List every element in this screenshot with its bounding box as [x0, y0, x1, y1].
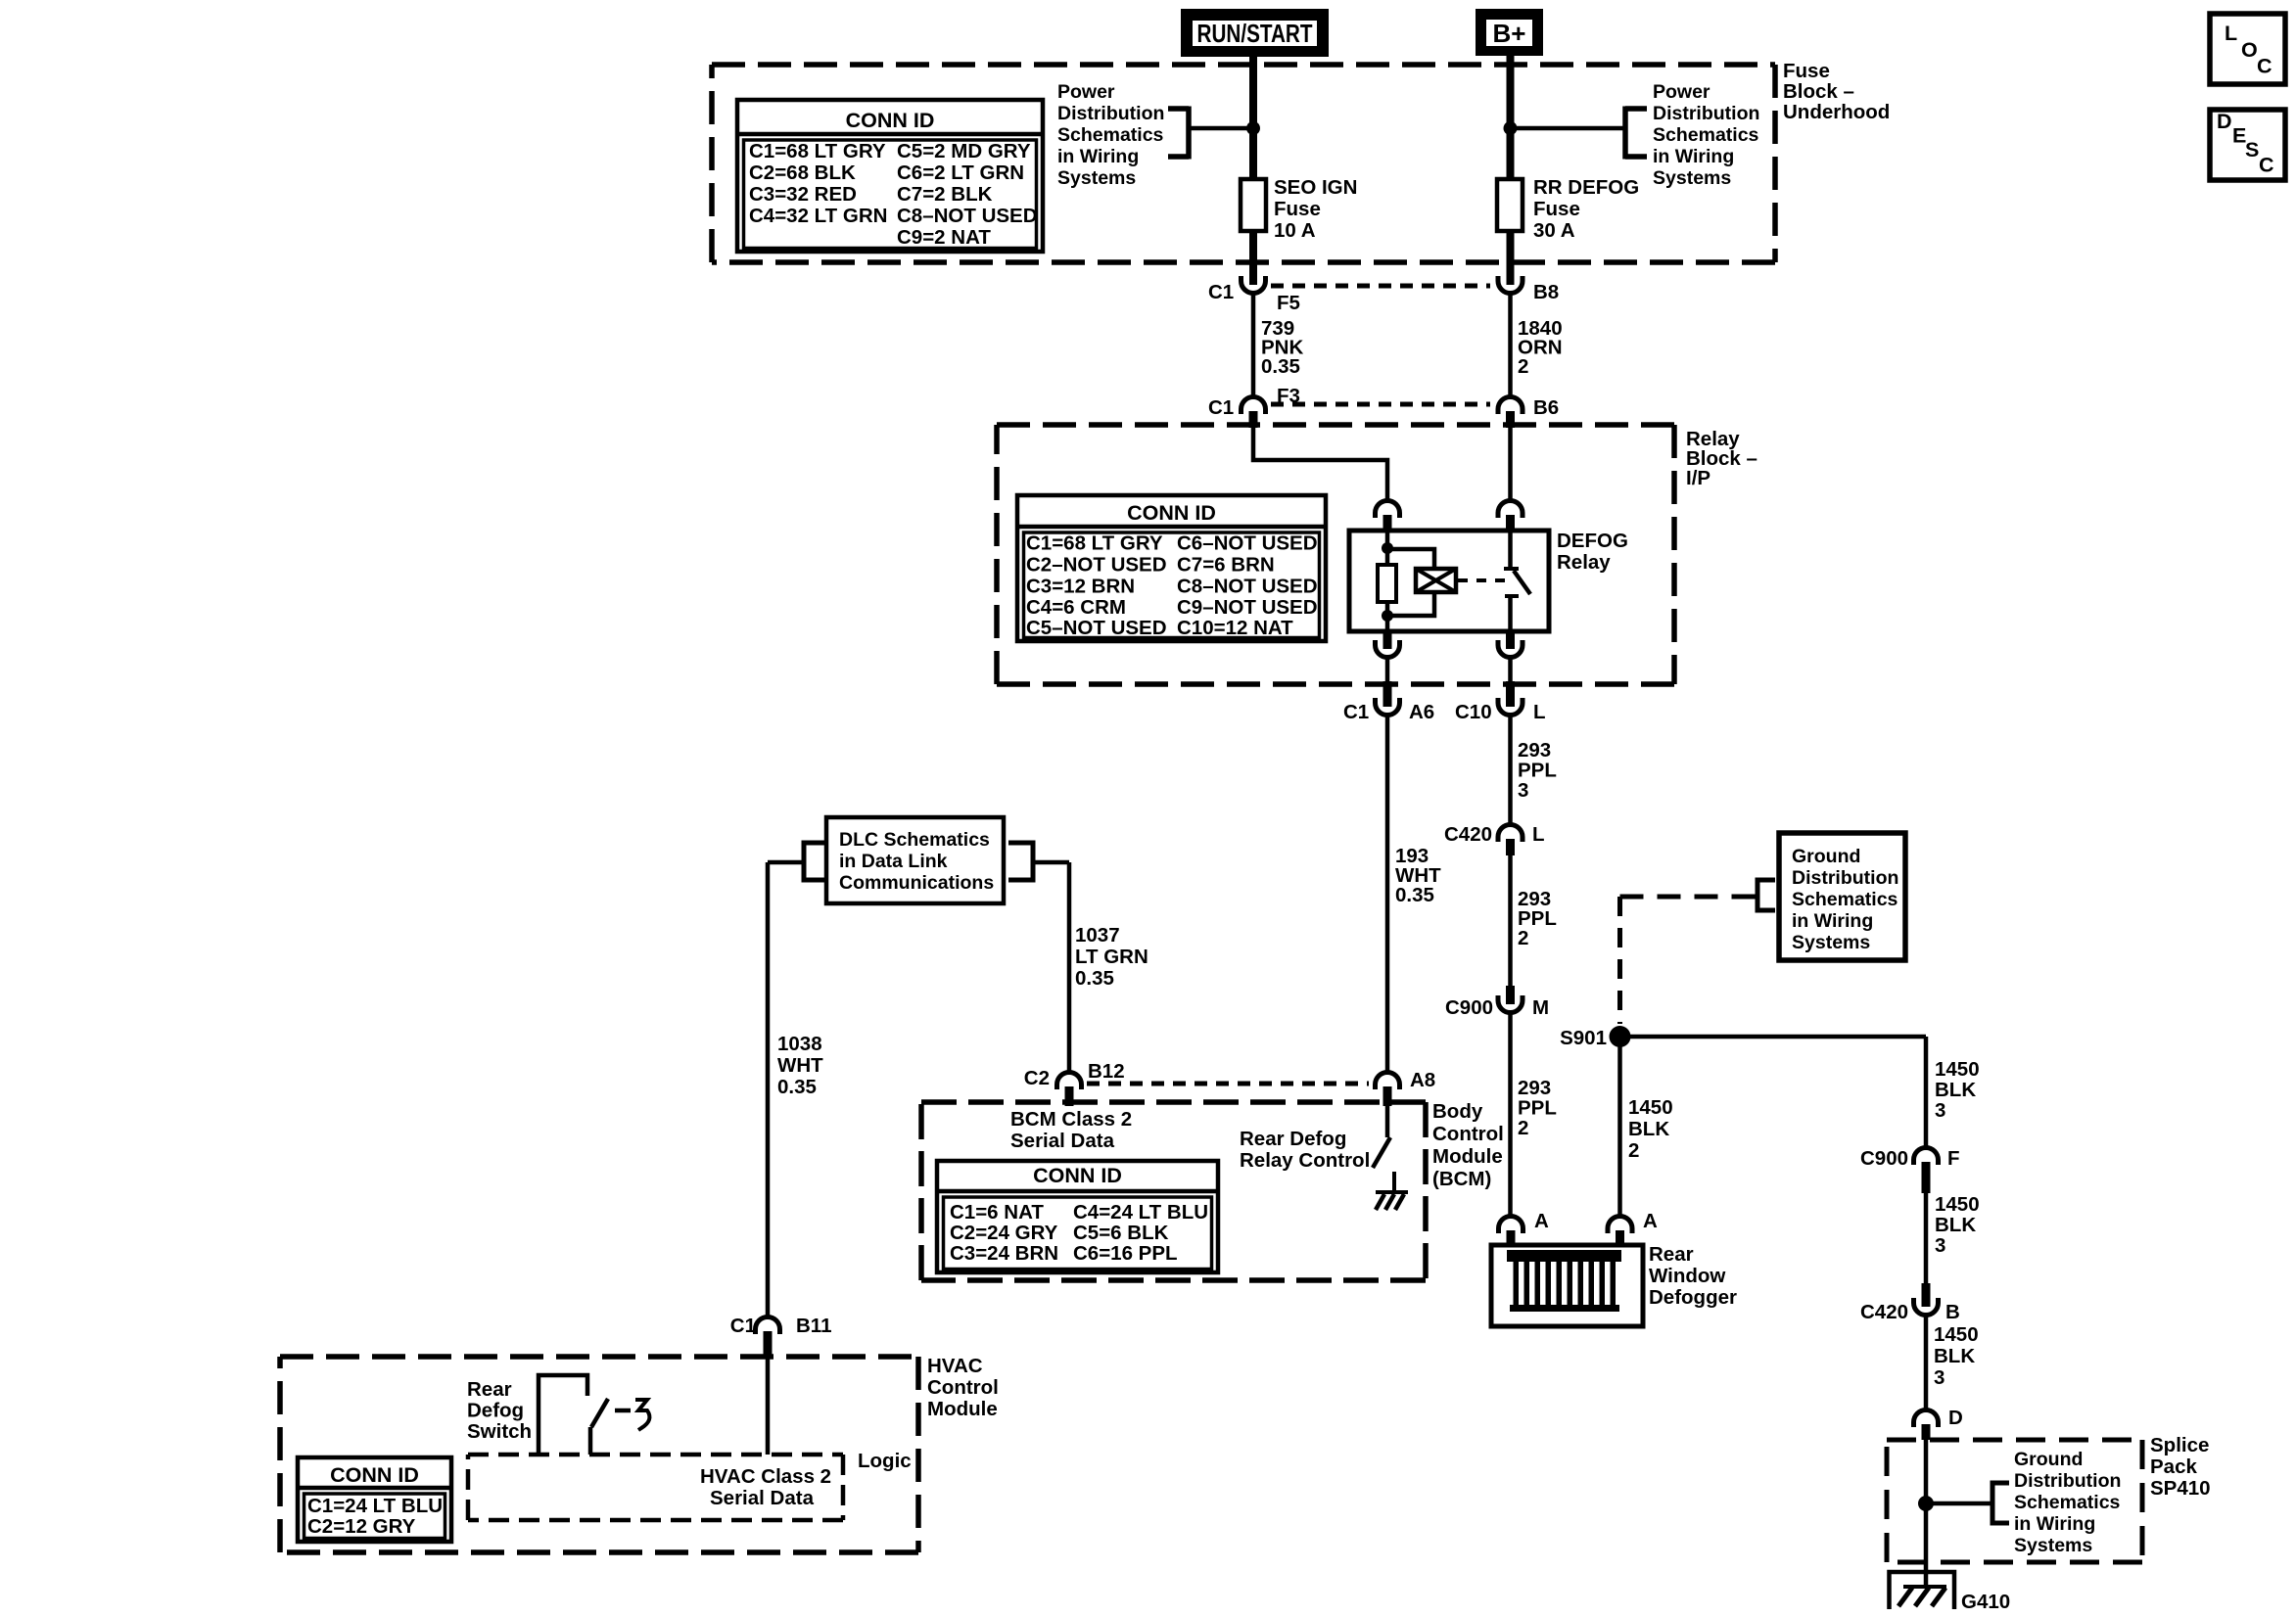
- svg-text:D: D: [1948, 1407, 1963, 1429]
- svg-text:Distribution: Distribution: [2014, 1470, 2121, 1492]
- svg-text:1038: 1038: [777, 1033, 822, 1055]
- svg-text:Power: Power: [1057, 81, 1115, 103]
- svg-text:C3=12 BRN: C3=12 BRN: [1026, 576, 1135, 598]
- svg-text:3: 3: [1518, 779, 1528, 802]
- svg-text:in Wiring: in Wiring: [2014, 1513, 2095, 1535]
- svg-text:C1: C1: [730, 1315, 756, 1337]
- svg-text:Body: Body: [1432, 1100, 1483, 1123]
- svg-text:Distribution: Distribution: [1792, 867, 1898, 889]
- svg-text:3: 3: [1935, 1099, 1945, 1122]
- svg-text:A6: A6: [1409, 701, 1434, 723]
- svg-text:RR DEFOG: RR DEFOG: [1533, 176, 1639, 199]
- svg-text:B6: B6: [1533, 396, 1559, 419]
- svg-text:in Wiring: in Wiring: [1653, 146, 1734, 167]
- svg-text:C: C: [2259, 154, 2274, 177]
- svg-text:Control: Control: [1432, 1123, 1504, 1145]
- svg-text:HVAC: HVAC: [927, 1355, 983, 1377]
- svg-text:B+: B+: [1493, 19, 1526, 48]
- svg-text:Schematics: Schematics: [1057, 124, 1164, 146]
- svg-text:Window: Window: [1649, 1265, 1725, 1287]
- svg-text:C4=24 LT BLU: C4=24 LT BLU: [1073, 1201, 1208, 1224]
- svg-text:C1=68 LT GRY: C1=68 LT GRY: [1026, 532, 1163, 555]
- svg-text:C2=12 GRY: C2=12 GRY: [307, 1515, 416, 1538]
- svg-text:HVAC Class 2: HVAC Class 2: [700, 1465, 831, 1488]
- svg-text:B: B: [1945, 1301, 1960, 1323]
- svg-text:C9=2 NAT: C9=2 NAT: [897, 226, 991, 249]
- svg-text:SP410: SP410: [2150, 1477, 2211, 1500]
- svg-text:C5–NOT USED: C5–NOT USED: [1026, 617, 1167, 639]
- svg-text:C10=12 NAT: C10=12 NAT: [1177, 617, 1293, 639]
- svg-text:B8: B8: [1533, 281, 1559, 303]
- svg-text:F3: F3: [1277, 385, 1300, 407]
- svg-text:CONN ID: CONN ID: [846, 109, 935, 132]
- svg-text:1450: 1450: [1935, 1058, 1980, 1081]
- svg-text:B12: B12: [1088, 1060, 1125, 1083]
- svg-text:SEO IGN: SEO IGN: [1274, 176, 1357, 199]
- svg-text:C2=68 BLK: C2=68 BLK: [749, 162, 856, 184]
- svg-text:C1=6 NAT: C1=6 NAT: [950, 1201, 1044, 1224]
- svg-text:C900: C900: [1860, 1147, 1908, 1170]
- svg-text:2: 2: [1628, 1139, 1639, 1162]
- svg-text:C3=32 RED: C3=32 RED: [749, 183, 857, 206]
- svg-text:Control: Control: [927, 1376, 999, 1399]
- svg-text:Systems: Systems: [2014, 1535, 2092, 1556]
- svg-text:B11: B11: [796, 1315, 831, 1337]
- svg-text:Relay: Relay: [1557, 551, 1611, 574]
- svg-text:M: M: [1532, 996, 1549, 1019]
- svg-text:C: C: [2257, 55, 2273, 78]
- svg-text:C2=24 GRY: C2=24 GRY: [950, 1222, 1058, 1244]
- svg-text:C5=2 MD GRY: C5=2 MD GRY: [897, 140, 1031, 162]
- svg-text:O: O: [2241, 38, 2258, 62]
- svg-text:Ground: Ground: [1792, 846, 1860, 867]
- svg-text:0.35: 0.35: [777, 1076, 817, 1098]
- svg-text:BLK: BLK: [1935, 1079, 1976, 1101]
- svg-text:Logic: Logic: [858, 1450, 912, 1472]
- svg-text:BCM Class 2: BCM Class 2: [1010, 1108, 1132, 1131]
- svg-text:Serial Data: Serial Data: [1010, 1130, 1115, 1152]
- svg-text:DEFOG: DEFOG: [1557, 530, 1628, 552]
- svg-text:S901: S901: [1560, 1027, 1607, 1049]
- svg-text:Module: Module: [927, 1398, 998, 1420]
- svg-text:RUN/START: RUN/START: [1197, 19, 1313, 48]
- svg-text:C2–NOT USED: C2–NOT USED: [1026, 554, 1167, 577]
- svg-text:I/P: I/P: [1686, 467, 1710, 489]
- svg-text:Defogger: Defogger: [1649, 1286, 1737, 1309]
- svg-text:C6=2 LT GRN: C6=2 LT GRN: [897, 162, 1024, 184]
- svg-text:Serial Data: Serial Data: [710, 1487, 815, 1509]
- svg-text:C1=24 LT BLU: C1=24 LT BLU: [307, 1495, 443, 1517]
- svg-text:C1: C1: [1208, 396, 1234, 419]
- svg-text:C420: C420: [1860, 1301, 1908, 1323]
- svg-text:C8–NOT USED: C8–NOT USED: [1177, 576, 1318, 598]
- svg-text:Block –: Block –: [1783, 80, 1854, 103]
- svg-text:S: S: [2245, 138, 2259, 162]
- svg-text:2: 2: [1518, 927, 1528, 949]
- svg-text:0.35: 0.35: [1075, 967, 1114, 990]
- svg-text:Fuse: Fuse: [1533, 198, 1580, 220]
- svg-text:30 A: 30 A: [1533, 219, 1575, 242]
- svg-text:Fuse: Fuse: [1274, 198, 1321, 220]
- svg-text:F5: F5: [1277, 292, 1300, 314]
- svg-text:1037: 1037: [1075, 924, 1120, 947]
- svg-text:D: D: [2217, 110, 2232, 133]
- svg-text:C5=6 BLK: C5=6 BLK: [1073, 1222, 1169, 1244]
- svg-text:C7=2 BLK: C7=2 BLK: [897, 183, 993, 206]
- svg-text:Systems: Systems: [1653, 167, 1731, 189]
- svg-text:CONN ID: CONN ID: [1127, 501, 1216, 525]
- svg-text:in Wiring: in Wiring: [1057, 146, 1139, 167]
- svg-text:Splice: Splice: [2150, 1434, 2209, 1456]
- svg-text:A8: A8: [1410, 1069, 1435, 1091]
- svg-text:1450: 1450: [1934, 1323, 1979, 1346]
- svg-text:C10: C10: [1455, 701, 1492, 723]
- svg-text:Distribution: Distribution: [1653, 103, 1759, 124]
- svg-text:DLC Schematics: DLC Schematics: [839, 829, 990, 851]
- svg-text:WHT: WHT: [777, 1054, 823, 1077]
- svg-text:C900: C900: [1445, 996, 1493, 1019]
- svg-text:Schematics: Schematics: [1653, 124, 1759, 146]
- svg-text:Underhood: Underhood: [1783, 101, 1890, 123]
- svg-text:C1: C1: [1343, 701, 1369, 723]
- svg-text:F: F: [1947, 1147, 1960, 1170]
- svg-text:3: 3: [1934, 1366, 1945, 1389]
- svg-text:C4=6 CRM: C4=6 CRM: [1026, 596, 1126, 619]
- svg-text:Rear: Rear: [1649, 1243, 1694, 1266]
- svg-text:Ground: Ground: [2014, 1449, 2083, 1470]
- svg-text:Relay Control: Relay Control: [1240, 1149, 1370, 1172]
- svg-text:BLK: BLK: [1935, 1214, 1976, 1236]
- svg-text:C4=32 LT GRN: C4=32 LT GRN: [749, 205, 887, 227]
- svg-text:A: A: [1643, 1210, 1658, 1232]
- svg-text:2: 2: [1518, 355, 1528, 378]
- svg-text:Rear: Rear: [467, 1378, 512, 1401]
- svg-text:C6=16 PPL: C6=16 PPL: [1073, 1242, 1178, 1265]
- svg-text:Switch: Switch: [467, 1420, 532, 1443]
- svg-text:C420: C420: [1444, 823, 1492, 846]
- svg-text:CONN ID: CONN ID: [1033, 1164, 1122, 1187]
- svg-text:C3=24 BRN: C3=24 BRN: [950, 1242, 1058, 1265]
- svg-text:C9–NOT USED: C9–NOT USED: [1177, 596, 1318, 619]
- svg-text:Communications: Communications: [839, 872, 994, 894]
- svg-text:CONN ID: CONN ID: [330, 1463, 419, 1487]
- svg-text:C2: C2: [1024, 1067, 1050, 1089]
- svg-text:1450: 1450: [1935, 1193, 1980, 1216]
- svg-text:Power: Power: [1653, 81, 1710, 103]
- svg-text:2: 2: [1518, 1117, 1528, 1139]
- svg-text:Pack: Pack: [2150, 1455, 2197, 1478]
- svg-text:in Data Link: in Data Link: [839, 851, 948, 872]
- svg-text:L: L: [1533, 701, 1546, 723]
- svg-text:in Wiring: in Wiring: [1792, 910, 1873, 932]
- svg-text:Rear Defog: Rear Defog: [1240, 1128, 1346, 1150]
- svg-text:Schematics: Schematics: [1792, 889, 1898, 910]
- svg-text:C6–NOT USED: C6–NOT USED: [1177, 532, 1318, 555]
- svg-text:Schematics: Schematics: [2014, 1492, 2121, 1513]
- svg-text:Systems: Systems: [1792, 932, 1870, 953]
- svg-text:G410: G410: [1961, 1591, 2010, 1613]
- svg-text:L: L: [2225, 22, 2237, 45]
- svg-text:C7=6 BRN: C7=6 BRN: [1177, 554, 1275, 577]
- svg-text:Systems: Systems: [1057, 167, 1136, 189]
- svg-text:0.35: 0.35: [1261, 355, 1300, 378]
- svg-text:0.35: 0.35: [1395, 884, 1434, 906]
- svg-text:Defog: Defog: [467, 1400, 524, 1422]
- svg-text:Module: Module: [1432, 1145, 1503, 1168]
- svg-text:Fuse: Fuse: [1783, 60, 1830, 82]
- svg-text:C1: C1: [1208, 281, 1234, 303]
- svg-text:10 A: 10 A: [1274, 219, 1316, 242]
- svg-text:C1=68 LT GRY: C1=68 LT GRY: [749, 140, 886, 162]
- svg-text:LT GRN: LT GRN: [1075, 946, 1148, 968]
- svg-text:BLK: BLK: [1628, 1118, 1669, 1140]
- svg-text:Distribution: Distribution: [1057, 103, 1164, 124]
- svg-text:L: L: [1532, 823, 1545, 846]
- svg-text:3: 3: [1935, 1234, 1945, 1257]
- svg-text:1450: 1450: [1628, 1096, 1673, 1119]
- svg-text:(BCM): (BCM): [1432, 1168, 1491, 1190]
- svg-text:A: A: [1534, 1210, 1549, 1232]
- svg-text:C8–NOT USED: C8–NOT USED: [897, 205, 1038, 227]
- svg-text:BLK: BLK: [1934, 1345, 1975, 1367]
